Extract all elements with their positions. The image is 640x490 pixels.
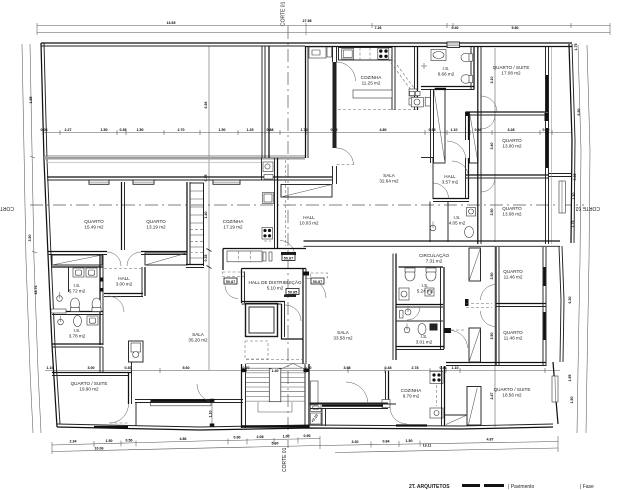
terrace lower gray edge [44, 157, 305, 160]
sala 33.58 furniture [310, 381, 388, 426]
svg-text:0.98: 0.98 [429, 128, 436, 132]
stair diagonals top [281, 364, 305, 370]
svg-text:1.55: 1.55 [568, 375, 572, 382]
svg-text:35.20 m2: 35.20 m2 [188, 338, 208, 343]
suite 18.56 wardrobe [445, 387, 482, 426]
dashed box entry bottom apartment [311, 273, 328, 278]
svg-text:13.19 m2: 13.19 m2 [146, 225, 166, 230]
wardrobe closet quarto1319 bottom [145, 253, 187, 265]
quarto 11.46 walls [446, 247, 546, 366]
svg-text:2.34: 2.34 [70, 440, 77, 444]
room SALA 33.58 [333, 330, 353, 341]
room QUARTO SUITE 18.56 [494, 387, 531, 398]
hall door arcs [223, 272, 327, 299]
svg-text:0.84: 0.84 [383, 440, 390, 444]
right dimension lines [568, 44, 590, 434]
svg-text:SALA: SALA [383, 173, 396, 178]
svg-text:9.80: 9.80 [512, 26, 519, 30]
left apartment top wall with windows [47, 177, 332, 184]
room QUARTO 13.08 [502, 206, 522, 217]
wardrobe shelf strip [190, 183, 204, 265]
svg-text:2.78: 2.78 [412, 366, 419, 370]
right apartment left wall [306, 46, 309, 158]
svg-text:13.11: 13.11 [423, 444, 432, 448]
svg-text:CIRCULAÇÃO: CIRCULAÇÃO [419, 252, 450, 258]
svg-text:| Fase: | Fase [580, 484, 594, 490]
stair stringer [242, 369, 310, 402]
svg-text:0.35: 0.35 [120, 128, 127, 132]
cozinha 17.19 fridge [263, 193, 274, 204]
svg-text:3.40: 3.40 [490, 143, 494, 150]
svg-text:SALA: SALA [192, 332, 205, 337]
stair treads [246, 364, 306, 402]
IS 6.66 [421, 47, 474, 90]
svg-text:32.64 m2: 32.64 m2 [379, 179, 399, 184]
svg-text:0.30: 0.30 [125, 366, 132, 370]
svg-text:3.00: 3.00 [88, 366, 95, 370]
svg-text:2.47: 2.47 [490, 393, 494, 400]
svg-text:5.60: 5.60 [183, 366, 190, 370]
svg-text:50.85: 50.85 [288, 290, 298, 294]
kitchen counters top [339, 48, 393, 61]
svg-text:CORTE 01: CORTE 01 [281, 1, 287, 26]
quarto wall vertical x478 [478, 47, 481, 244]
wall quarto divider 2 [187, 182, 190, 265]
svg-text:HALL: HALL [303, 215, 315, 220]
elevator [246, 304, 278, 337]
svg-text:7.31 m2: 7.31 m2 [426, 259, 443, 264]
interior dimension line y370 [45, 366, 560, 373]
wall below quartos [48, 252, 187, 255]
svg-text:3.57 m2: 3.57 m2 [442, 180, 459, 185]
top dimension lines [37, 19, 610, 35]
quarto suite 19.90 walls [52, 347, 132, 404]
svg-text:QUARTO: QUARTO [146, 219, 166, 224]
IS 5.24 fixtures [399, 268, 436, 300]
IS 5.72 shower [57, 292, 63, 301]
svg-text:33.58 m2: 33.58 m2 [333, 336, 353, 341]
svg-text:0.48: 0.48 [440, 366, 447, 370]
room IS 4.05 [449, 215, 466, 226]
svg-text:13.65: 13.65 [167, 21, 176, 25]
room CIRCULACAO 7.31 [419, 252, 450, 264]
svg-text:1.40: 1.40 [204, 212, 208, 219]
svg-text:10.03 m2: 10.03 m2 [299, 221, 319, 226]
svg-text:1.75: 1.75 [574, 44, 578, 51]
stairs block [242, 364, 310, 428]
island table cozinha [353, 90, 392, 98]
svg-text:5.10 m2: 5.10 m2 [267, 286, 284, 291]
svg-text:6.66 m2: 6.66 m2 [438, 72, 455, 77]
svg-text:0.50: 0.50 [126, 439, 133, 443]
svg-text:11.46 m2: 11.46 m2 [504, 336, 523, 341]
svg-text:3.78 m2: 3.78 m2 [69, 334, 86, 339]
below elevator dashed [245, 341, 268, 359]
svg-text:QUARTO: QUARTO [502, 206, 522, 211]
landing top walls [223, 249, 306, 271]
svg-text:I.S.: I.S. [74, 283, 81, 288]
interior dimension line y132 [41, 128, 573, 135]
svg-text:2.08: 2.08 [257, 435, 264, 439]
svg-text:QUARTO: QUARTO [503, 269, 523, 274]
hall door arcs [433, 141, 469, 199]
svg-text:10.06: 10.06 [95, 447, 104, 451]
svg-text:6.50: 6.50 [577, 109, 581, 116]
room QUARTO SUITE 19.90 [71, 381, 108, 392]
svg-text:1.50: 1.50 [137, 128, 144, 132]
svg-text:QUARTO: QUARTO [503, 330, 523, 335]
left dimension lines [22, 44, 41, 433]
room IS 3.78 [69, 328, 86, 339]
svg-text:6.56: 6.56 [204, 102, 208, 109]
svg-text:QUARTO / SUITE: QUARTO / SUITE [71, 381, 108, 386]
room SALA 32.64 [379, 173, 399, 184]
room COZINHA 9.79 [401, 388, 423, 399]
svg-text:HALL: HALL [118, 276, 130, 281]
svg-text:I.S.: I.S. [421, 334, 428, 339]
IS 5.72 sinks [73, 268, 97, 277]
interior vertical dim line x495 upper [490, 48, 495, 242]
svg-text:1.50: 1.50 [101, 128, 108, 132]
svg-text:4.80: 4.80 [380, 128, 387, 132]
svg-text:1.10: 1.10 [47, 366, 54, 370]
sala 35.20 bottom wall balcony [135, 384, 243, 427]
room IS 3.01 [416, 334, 433, 345]
svg-text:18.56 m2: 18.56 m2 [502, 393, 522, 398]
wall quarto divider 1 [122, 182, 125, 250]
svg-text:HALL: HALL [444, 174, 456, 179]
svg-text:1.50: 1.50 [570, 397, 574, 404]
svg-text:1.85: 1.85 [29, 97, 33, 104]
svg-text:3.00 m2: 3.00 m2 [116, 282, 133, 287]
IS 3.78 fixtures [58, 316, 98, 327]
cozinha left wall [203, 183, 205, 266]
room labels [69, 65, 531, 399]
corridor fixtures below IS [410, 91, 431, 107]
IS 3.01 fixtures [404, 324, 437, 335]
cozinha 17.19 pantry room [262, 158, 278, 248]
wardrobe strip bottom wall [186, 265, 204, 268]
door arc hall to sala [100, 269, 142, 313]
balcony strips bottom [135, 403, 396, 405]
svg-text:2.70: 2.70 [178, 128, 185, 132]
quarto door arcs right top [481, 96, 497, 192]
svg-text:5.24 m2: 5.24 m2 [417, 289, 434, 294]
svg-text:CORTE 01: CORTE 01 [282, 447, 288, 472]
svg-text:3.01 m2: 3.01 m2 [416, 340, 433, 345]
closet with diagonal below IS [431, 90, 446, 164]
svg-text:1.25: 1.25 [247, 128, 254, 132]
svg-text:3.30: 3.30 [352, 440, 359, 444]
svg-text:QUARTO: QUARTO [84, 219, 104, 224]
corte 02 section line [0, 205, 600, 211]
outer top wall [41, 42, 572, 48]
svg-text:3.98: 3.98 [344, 366, 351, 370]
suite window right [552, 376, 558, 402]
svg-text:0.35: 0.35 [204, 255, 208, 262]
svg-text:0.40: 0.40 [452, 26, 459, 30]
svg-text:3.28: 3.28 [508, 128, 515, 132]
svg-text:1.00: 1.00 [283, 435, 290, 439]
bottom outer wall [57, 424, 553, 430]
suite door arc [110, 404, 129, 423]
svg-text:50.87: 50.87 [284, 256, 294, 260]
svg-text:1.10: 1.10 [452, 366, 459, 370]
stair landing outline [258, 402, 292, 412]
svg-text:SALA: SALA [337, 330, 350, 335]
room IS 6.66 [438, 66, 455, 77]
svg-text:1.50: 1.50 [106, 439, 113, 443]
svg-text:HALL DE DISTRIBUIÇÃO: HALL DE DISTRIBUIÇÃO [249, 279, 302, 285]
IS 5.72 toilets [71, 298, 102, 312]
svg-text:50.87: 50.87 [313, 280, 323, 284]
svg-text:4.86: 4.86 [180, 437, 187, 441]
laundry box terrace [309, 47, 332, 58]
svg-text:COZINHA: COZINHA [361, 75, 383, 80]
svg-text:1.50: 1.50 [406, 439, 413, 443]
svg-text:13.00 m2: 13.00 m2 [502, 144, 522, 149]
window wall x545 [545, 47, 552, 244]
room QUARTO 15.49 [84, 219, 104, 230]
room HALL 10.03 [299, 215, 319, 226]
svg-text:COZINHA: COZINHA [401, 388, 423, 393]
right outer wall lower balcony edge [553, 246, 564, 424]
svg-text:1.70: 1.70 [301, 128, 308, 132]
svg-text:I.S.: I.S. [443, 66, 450, 71]
svg-text:QUARTO / SUITE: QUARTO / SUITE [494, 387, 531, 392]
planter hall 10.03 [281, 185, 332, 198]
hall de distribuicao walls [242, 269, 307, 365]
svg-text:1.10: 1.10 [451, 128, 458, 132]
corte 01 section line [281, 1, 289, 472]
svg-text:15.49 m2: 15.49 m2 [84, 225, 104, 230]
HALL3.00 walls [104, 267, 145, 297]
svg-text:4.05 m2: 4.05 m2 [449, 221, 466, 226]
svg-text:3.50: 3.50 [28, 235, 32, 242]
cozinha right wall + duct [338, 47, 418, 110]
svg-text:13.08 m2: 13.08 m2 [502, 212, 522, 217]
room SALA 35.20 [188, 332, 208, 343]
svg-text:CORTE 02: CORTE 02 [0, 205, 14, 211]
svg-text:11.46 m2: 11.46 m2 [504, 275, 523, 280]
svg-text:3.50: 3.50 [490, 333, 494, 340]
IS 4.05 [430, 202, 476, 243]
apartment divider wall mid [303, 241, 560, 276]
door arcs quarto 15.49 / 13.19 [107, 252, 141, 266]
circulacao corridor walls [400, 311, 404, 319]
svg-text:5.60: 5.60 [272, 442, 279, 446]
room QUARTO 13.00 [502, 138, 522, 149]
svg-text:4.87: 4.87 [487, 438, 494, 442]
svg-text:19.90 m2: 19.90 m2 [79, 387, 99, 392]
svg-text:5.72 m2: 5.72 m2 [69, 289, 86, 294]
svg-text:6.30: 6.30 [568, 297, 572, 304]
shelf left of IS [51, 309, 66, 313]
svg-text:7.26: 7.26 [375, 26, 382, 30]
svg-text:0.90: 0.90 [304, 434, 311, 438]
room HALL 3.00 [116, 276, 133, 287]
svg-text:9.79 m2: 9.79 m2 [403, 394, 420, 399]
room IS 5.24 [417, 283, 434, 294]
closet quarto 13.00 [470, 112, 479, 163]
svg-text:17.08 m2: 17.08 m2 [501, 71, 521, 76]
right outer wall upper [569, 44, 575, 243]
bottom dimension lines [52, 434, 558, 454]
suite window sill [94, 426, 128, 428]
svg-text:3.50: 3.50 [490, 273, 494, 280]
svg-text:11.25 m2: 11.25 m2 [362, 81, 381, 86]
room QUARTO SUITE 17.08 [493, 65, 530, 76]
svg-text:0.90: 0.90 [234, 436, 241, 440]
entry door arc left apartment [280, 160, 296, 255]
balcony left end wall [135, 402, 137, 426]
bottom apartment: IS block walls [393, 254, 469, 361]
cozinha 9.79 [382, 366, 445, 426]
room QUARTO 11.46 a [503, 269, 523, 280]
svg-text:3.50: 3.50 [490, 209, 494, 216]
quarto door arcs [466, 248, 496, 362]
svg-text:I.S.: I.S. [74, 328, 81, 333]
svg-text:2T. ARQUITETOS: 2T. ARQUITETOS [409, 484, 450, 490]
level labels [224, 255, 324, 295]
svg-text:18.76: 18.76 [34, 286, 38, 295]
svg-text:I.S.: I.S. [422, 283, 429, 288]
svg-text:1.40: 1.40 [272, 369, 279, 373]
svg-text:COZINHA: COZINHA [223, 219, 245, 224]
svg-text:17.19 m2: 17.19 m2 [223, 225, 243, 230]
room HALL 3.57 [442, 174, 459, 185]
IS 6.66 dark jamb [435, 88, 446, 90]
svg-text:QUARTO / SUITE: QUARTO / SUITE [493, 65, 530, 70]
svg-text:3.10: 3.10 [490, 77, 494, 84]
suite/quarto divider y112 [466, 112, 550, 117]
middle strip washing [405, 306, 420, 320]
svg-text:27.98: 27.98 [303, 19, 312, 23]
svg-text:1.10: 1.10 [209, 411, 213, 418]
svg-text:CORTE 02: CORTE 02 [575, 205, 600, 211]
wardrobe closet IS top [52, 255, 102, 265]
svg-text:0.88: 0.88 [267, 128, 274, 132]
interior vertical dim line x495 lower [490, 247, 495, 427]
svg-text:2.27: 2.27 [65, 128, 72, 132]
svg-text:0.48: 0.48 [385, 366, 392, 370]
room COZINHA 17.19 [223, 219, 245, 230]
legend bottom [409, 484, 594, 490]
room HALL DE DISTRIBUICAO [249, 279, 302, 291]
svg-text:I.S.: I.S. [454, 215, 461, 220]
room QUARTO 11.46 b [503, 330, 523, 341]
hall 3.57 walls [421, 112, 469, 202]
cozinha 17.19 stove [262, 228, 273, 242]
room QUARTO 13.19 [146, 219, 166, 230]
svg-text:50.87: 50.87 [226, 280, 236, 284]
closet box with fixture left of sala [129, 341, 144, 362]
IS 5.72 walls [52, 255, 103, 347]
ramp next to stairs [310, 404, 321, 424]
svg-text:| Pavimento: | Pavimento [508, 484, 535, 490]
svg-text:1.50: 1.50 [219, 128, 226, 132]
east window quarto 13.08 [559, 181, 565, 213]
room COZINHA 11.25 [361, 75, 383, 86]
interior vertical dim line x209 [204, 46, 212, 370]
svg-text:QUARTO: QUARTO [502, 138, 522, 143]
room IS 5.72 [69, 283, 86, 294]
terrace right wall [262, 46, 269, 158]
cozinha west wall with doors [333, 47, 356, 184]
quarto divider y175 [466, 174, 571, 179]
left outer wall [41, 43, 60, 427]
